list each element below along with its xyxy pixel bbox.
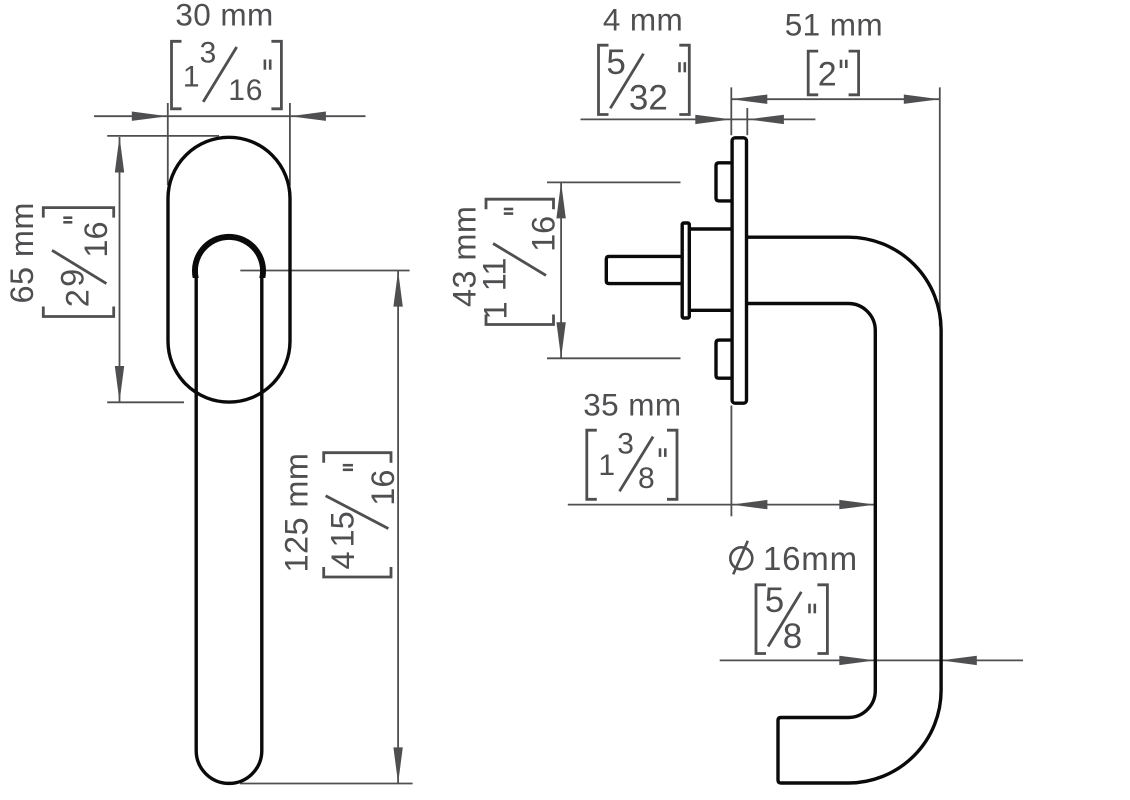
svg-text:3: 3 xyxy=(617,427,634,460)
svg-text:4: 4 xyxy=(325,551,361,569)
svg-text:8: 8 xyxy=(783,617,802,656)
svg-text:2: 2 xyxy=(60,289,96,307)
svg-text:30 mm: 30 mm xyxy=(175,0,273,33)
svg-text:51 mm: 51 mm xyxy=(785,6,883,42)
svg-text:16: 16 xyxy=(228,74,263,107)
svg-text:4 mm: 4 mm xyxy=(603,1,683,37)
svg-text:1: 1 xyxy=(598,449,615,482)
svg-text:1: 1 xyxy=(183,60,200,93)
svg-text:3: 3 xyxy=(200,37,217,70)
svg-text:125 mm: 125 mm xyxy=(279,453,315,573)
svg-text:1: 1 xyxy=(478,301,514,319)
svg-text:16mm: 16mm xyxy=(763,540,858,577)
svg-text:2: 2 xyxy=(818,55,837,93)
svg-text:16: 16 xyxy=(78,221,114,257)
svg-text:5: 5 xyxy=(765,581,784,620)
svg-text:65 mm: 65 mm xyxy=(4,202,40,303)
svg-text:35 mm: 35 mm xyxy=(583,386,681,422)
svg-text:32: 32 xyxy=(629,78,668,117)
svg-text:5: 5 xyxy=(606,43,625,82)
svg-text:16: 16 xyxy=(365,470,401,506)
svg-text:15: 15 xyxy=(325,511,361,547)
svg-text:11: 11 xyxy=(477,258,513,292)
svg-text:16: 16 xyxy=(525,216,561,252)
svg-text:8: 8 xyxy=(638,462,655,495)
